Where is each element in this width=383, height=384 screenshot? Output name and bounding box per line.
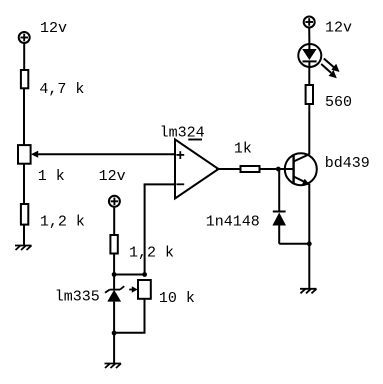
resistor R2 1,2k (left) (21, 204, 28, 225)
wire wiper to op-amp + input (36, 153, 176, 155)
potentiometer P2 wiper arrow (129, 286, 137, 293)
svg-text:bd439: bd439 (325, 155, 370, 172)
supply V1 +12v (top-left) (19, 32, 30, 43)
ground (right) (300, 289, 317, 294)
supply V3 +12v (top-right) (304, 17, 315, 28)
resistor R4 1k (horizontal) (241, 166, 260, 172)
wire R3 to node A (113, 254, 115, 275)
wire to op-amp - input (144, 183, 176, 185)
wire V1 to R1 (23, 44, 25, 71)
ground (middle) (105, 364, 122, 369)
wire R5 to LED (308, 68, 310, 85)
supply V2 +12v (middle) (109, 196, 120, 207)
svg-text:1,2 k: 1,2 k (40, 214, 85, 231)
svg-text:1n4148: 1n4148 (206, 214, 260, 231)
collector wire up to R5 (308, 104, 310, 155)
node B junction dot (142, 272, 147, 277)
LED D3 (298, 43, 321, 68)
wire R2 to ground (23, 225, 25, 246)
potentiometer P1 wiper arrow (31, 151, 38, 158)
emitter wire down to ground (308, 184, 310, 289)
svg-text:560: 560 (325, 94, 352, 111)
LED arrow 1 (324, 59, 340, 73)
zener lm335 D2 (105, 275, 124, 334)
wire P1 to R2 (23, 164, 25, 205)
wire node C to ground (113, 333, 115, 364)
op-amp U1 lm324 (175, 139, 219, 198)
node E junction dot (307, 241, 312, 246)
wire op-amp output to R4 (216, 168, 241, 170)
transistor Q1 bd439 (285, 153, 317, 185)
wire D1 to emitter line (279, 243, 309, 245)
wire node B up to op-amp - input (144, 184, 146, 274)
resistor R1 4,7k (21, 70, 28, 88)
svg-text:4,7 k: 4,7 k (39, 81, 84, 98)
svg-text:lm335: lm335 (55, 289, 100, 306)
svg-text:10 k: 10 k (159, 290, 195, 307)
node D junction dot (base/diode) (276, 167, 281, 172)
wire R4 to base (260, 168, 294, 170)
svg-text:1k: 1k (234, 141, 252, 158)
ground (left) (15, 246, 32, 251)
wire node A to node B (114, 274, 145, 276)
svg-text:1 k: 1 k (38, 168, 65, 185)
node A junction dot (112, 272, 117, 277)
wire P2 bottom to node C (114, 299, 144, 333)
svg-text:12v: 12v (325, 20, 352, 37)
wire R1 to P1 (23, 88, 25, 145)
potentiometer P2 10k body (138, 280, 151, 299)
resistor R3 1,2k (middle) (110, 235, 117, 254)
svg-text:12v: 12v (40, 20, 67, 37)
wire base node down to diode D1 (278, 169, 280, 212)
diode D1 1n4148 (272, 212, 286, 244)
wire V3 to LED (308, 28, 310, 44)
svg-text:1,2 k: 1,2 k (129, 244, 174, 261)
potentiometer P1 1k body (18, 145, 31, 164)
svg-text:12v: 12v (99, 168, 126, 185)
node C junction dot (112, 331, 117, 336)
wire V2 to R3 (113, 207, 115, 235)
resistor R5 560 (306, 85, 313, 104)
LED arrow 2 (321, 64, 337, 78)
underline under 24 of lm324 (188, 139, 202, 141)
